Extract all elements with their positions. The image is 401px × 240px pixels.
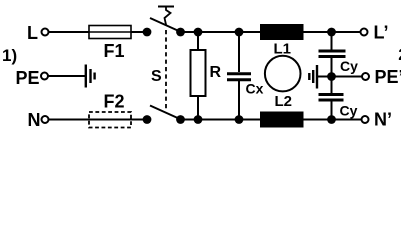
capacitor Cy top stem lower xyxy=(331,58,333,77)
junction dot (bottom switch throw) xyxy=(176,115,185,124)
node dot R bottom xyxy=(194,115,203,124)
capacitor Cy top plates xyxy=(319,50,346,53)
capacitor Cx plates xyxy=(227,72,251,75)
capacitor Cy bottom stem upper xyxy=(331,77,333,94)
earth symbol right: tall bar xyxy=(316,65,318,89)
svg-text:1): 1) xyxy=(2,46,17,65)
svg-text:R: R xyxy=(210,64,222,81)
wire through F1 xyxy=(89,31,143,33)
capacitor Cy bottom stem lower xyxy=(331,102,333,120)
svg-text:S: S xyxy=(151,68,162,85)
terminal L circle xyxy=(42,29,49,36)
inductor L2 winding xyxy=(260,112,304,128)
capacitor Cx stem bottom xyxy=(238,81,240,120)
junction dot (top switch throw) xyxy=(176,28,185,37)
wire L2 to N' xyxy=(304,119,362,121)
capacitor Cy top stem upper xyxy=(331,32,333,50)
svg-text:PE: PE xyxy=(16,68,40,88)
wire earth to PE' node xyxy=(317,76,332,78)
switch S linkage dashed line xyxy=(165,30,167,110)
svg-text:Cy: Cy xyxy=(340,102,358,118)
wire L to F1 xyxy=(49,31,90,33)
node dot Cy bottom xyxy=(327,115,336,124)
terminal PE circle xyxy=(41,73,48,80)
earth symbol right: short bar xyxy=(308,73,310,80)
wire PE' node to terminal xyxy=(332,76,363,78)
switch S actuator stem+zigzag xyxy=(165,7,171,26)
svg-text:F2: F2 xyxy=(104,92,125,112)
capacitor Cx stem top xyxy=(238,32,240,72)
terminal N' circle xyxy=(362,116,369,123)
earth symbol left: tall bar xyxy=(85,65,87,88)
wire PE to earth xyxy=(48,75,86,77)
node dot Cx bottom xyxy=(235,115,244,124)
terminal N circle xyxy=(42,116,49,123)
svg-text:N: N xyxy=(28,110,41,130)
inductor L1 winding xyxy=(260,24,304,40)
earth symbol left: mid bar xyxy=(89,69,91,83)
terminal PE' circle xyxy=(362,73,369,80)
wire N to switch xyxy=(49,119,144,121)
junction dot (top switch pole) xyxy=(143,28,152,37)
node dot Cy top xyxy=(327,28,336,37)
wire bottom rail mid xyxy=(181,119,261,121)
svg-text:N’: N’ xyxy=(374,110,392,130)
svg-text:Cx: Cx xyxy=(246,81,264,97)
switch S actuator T-bar xyxy=(158,6,174,8)
earth symbol right: mid bar xyxy=(312,70,314,83)
wire L1 to L' xyxy=(304,31,361,33)
resistor R stem top xyxy=(197,32,199,50)
junction dot (bottom switch pole) xyxy=(143,115,152,124)
terminal L' circle xyxy=(361,29,368,36)
switch S top blade xyxy=(150,18,181,32)
fuse F1 xyxy=(89,26,131,39)
earth symbol left: short bar xyxy=(93,73,95,80)
capacitor Cy bottom plates xyxy=(319,93,344,96)
resistor R stem bottom xyxy=(197,96,199,120)
choke core circle xyxy=(265,56,301,92)
fuse F2 dashed rect xyxy=(89,112,131,128)
svg-text:L2: L2 xyxy=(275,93,293,110)
wire top rail mid xyxy=(181,31,261,33)
switch S bottom blade xyxy=(150,106,181,120)
node dot R top xyxy=(194,28,203,37)
resistor R body xyxy=(191,50,206,96)
node dot PE' xyxy=(327,72,336,81)
node dot Cx top xyxy=(235,28,244,37)
svg-text:L: L xyxy=(27,23,38,43)
svg-text:Cy: Cy xyxy=(340,58,358,74)
svg-text:L’: L’ xyxy=(374,23,389,43)
svg-text:F1: F1 xyxy=(104,41,125,61)
svg-text:PE’: PE’ xyxy=(375,67,401,87)
